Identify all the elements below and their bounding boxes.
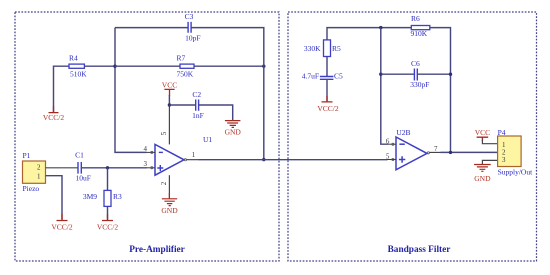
wire C5 to VCC/2 bbox=[326, 79, 328, 101]
power VCC/2 under C5 bbox=[317, 96, 339, 113]
svg-text:330K: 330K bbox=[304, 44, 321, 53]
power VCC/2 under R3 bbox=[97, 214, 119, 232]
wire to C6 bbox=[381, 73, 415, 75]
node junction C6 left bbox=[379, 73, 382, 76]
wire U2B output net to P4 bbox=[441, 151, 498, 153]
svg-text:5: 5 bbox=[386, 153, 390, 161]
wire VCC/2 to R4 bbox=[54, 66, 70, 112]
svg-text:C1: C1 bbox=[75, 151, 84, 160]
svg-text:C3: C3 bbox=[185, 12, 194, 21]
resistor R4 bbox=[69, 54, 87, 79]
op-amp U1 bbox=[155, 135, 212, 175]
svg-text:C6: C6 bbox=[411, 59, 420, 68]
svg-text:910K: 910K bbox=[411, 29, 428, 38]
node junction C6 right bbox=[449, 73, 452, 76]
svg-text:Supply/Out: Supply/Out bbox=[498, 167, 534, 176]
resistor R6 bbox=[411, 14, 430, 38]
wire R6 to right corner down bbox=[430, 28, 451, 153]
power VCC at P4 bbox=[475, 128, 490, 141]
svg-text:2: 2 bbox=[160, 181, 168, 185]
wire U2B output pin stub bbox=[430, 151, 441, 153]
power VCC/2 under R4 bbox=[43, 106, 65, 122]
wire R5 top corner along top bbox=[327, 28, 411, 40]
svg-text:R7: R7 bbox=[177, 54, 186, 63]
svg-text:330pF: 330pF bbox=[410, 80, 429, 89]
capacitor C1 bbox=[75, 151, 91, 183]
svg-text:2: 2 bbox=[37, 163, 41, 171]
resistor R5 bbox=[304, 40, 341, 57]
svg-text:R6: R6 bbox=[411, 14, 420, 23]
node junction R3 tap bbox=[106, 166, 109, 169]
power VCC above U1 bbox=[162, 81, 177, 96]
svg-text:VCC: VCC bbox=[475, 128, 490, 137]
wire R3 to VCC/2 bbox=[107, 206, 109, 219]
label Pre-Amplifier bbox=[129, 245, 185, 255]
power VCC/2 under P1 bbox=[51, 214, 73, 232]
capacitor C2 bbox=[192, 90, 204, 120]
svg-text:5: 5 bbox=[160, 131, 168, 135]
wire C2 to GND bbox=[199, 105, 233, 120]
svg-text:VCC/2: VCC/2 bbox=[43, 113, 65, 122]
svg-text:Piezo: Piezo bbox=[23, 184, 40, 193]
pin 2 power stub (bottom) bbox=[160, 175, 170, 198]
wire R5 to C5 bbox=[326, 57, 328, 77]
wire U1 output net to U2B pin5 bbox=[199, 159, 388, 161]
pre-amplifier block dashed border bbox=[15, 12, 279, 261]
connector P4 bbox=[498, 128, 534, 177]
svg-text:P1: P1 bbox=[23, 151, 31, 160]
svg-text:3: 3 bbox=[502, 156, 506, 164]
svg-text:4: 4 bbox=[144, 145, 148, 153]
svg-text:Pre-Amplifier: Pre-Amplifier bbox=[129, 245, 185, 255]
svg-text:P4: P4 bbox=[498, 128, 506, 137]
resistor R7 bbox=[177, 54, 195, 79]
svg-text:C5: C5 bbox=[334, 72, 343, 81]
svg-text:10pF: 10pF bbox=[185, 33, 200, 42]
svg-text:VCC/2: VCC/2 bbox=[317, 104, 339, 113]
svg-text:3M9: 3M9 bbox=[83, 192, 97, 201]
capacitor C5 bbox=[302, 72, 343, 81]
pin 6 stub bbox=[386, 137, 396, 145]
node junction output bbox=[449, 151, 452, 154]
svg-text:510K: 510K bbox=[70, 70, 87, 79]
op-amp U2B bbox=[396, 128, 427, 170]
wire VCC to P4 pin1 bbox=[482, 140, 497, 144]
wire P1 pin2 to C1 bbox=[46, 167, 79, 169]
svg-text:7: 7 bbox=[434, 145, 438, 153]
svg-text:VCC/2: VCC/2 bbox=[51, 223, 73, 232]
svg-text:R4: R4 bbox=[69, 54, 78, 63]
svg-text:GND: GND bbox=[161, 206, 178, 215]
node junction feedback left bbox=[113, 65, 116, 68]
wire P4 pin3 to GND bbox=[482, 160, 497, 164]
ground GND below U1 bbox=[161, 193, 178, 215]
wire P1 pin1 down to VCC/2 bbox=[46, 176, 63, 220]
wire feedback vertical to pin4 bbox=[115, 28, 147, 153]
wire C3 to right vertical down to output bbox=[191, 28, 264, 160]
svg-text:GND: GND bbox=[225, 127, 242, 136]
bandpass filter block dashed border bbox=[288, 12, 537, 261]
svg-text:VCC: VCC bbox=[162, 81, 177, 90]
wire R4 to node bbox=[84, 65, 115, 67]
ground GND right of C2 bbox=[225, 121, 242, 137]
pin 1 output stub bbox=[184, 151, 195, 161]
svg-text:10uF: 10uF bbox=[75, 174, 90, 183]
svg-text:4.7uF: 4.7uF bbox=[302, 72, 319, 81]
resistor R3 bbox=[83, 190, 122, 206]
connector P1 bbox=[23, 151, 46, 193]
pin 3 stub bbox=[144, 160, 155, 169]
pin 7 output stub bbox=[427, 145, 438, 154]
wire junction to C2 bbox=[169, 104, 195, 106]
node junction output feedback bbox=[262, 158, 265, 161]
node junction top feedback bbox=[379, 26, 382, 29]
svg-text:C2: C2 bbox=[192, 90, 201, 99]
svg-text:R5: R5 bbox=[332, 44, 341, 53]
pin 5 power stub (top) bbox=[160, 105, 169, 144]
wire U1 output pin stub bbox=[187, 159, 199, 161]
svg-text:6: 6 bbox=[386, 137, 390, 145]
svg-text:U2B: U2B bbox=[396, 128, 410, 137]
ground GND at P4 bbox=[474, 165, 491, 183]
pin 5 stub bbox=[386, 153, 396, 161]
svg-text:1nF: 1nF bbox=[192, 111, 204, 120]
wire feedback vertical left bbox=[381, 28, 388, 145]
svg-text:1: 1 bbox=[37, 172, 41, 180]
capacitor C6 bbox=[410, 59, 429, 89]
node junction C2 tap bbox=[168, 103, 171, 106]
svg-text:750K: 750K bbox=[177, 70, 194, 79]
svg-text:R3: R3 bbox=[113, 192, 122, 201]
wire C6 to right vertical bbox=[417, 73, 450, 75]
wire R7 to right vertical bbox=[194, 65, 264, 67]
node junction feedback right bbox=[262, 65, 265, 68]
wire VCC to U1 pin5 / C2 tap bbox=[168, 95, 170, 105]
svg-text:3: 3 bbox=[144, 160, 148, 168]
pin 4 stub bbox=[144, 145, 155, 154]
wire node to R7 bbox=[115, 65, 180, 67]
wire junction to R3 bbox=[107, 168, 109, 191]
svg-text:VCC/2: VCC/2 bbox=[97, 223, 119, 232]
wire C1 to op-amp pin3 bbox=[81, 167, 146, 169]
svg-text:GND: GND bbox=[474, 174, 491, 183]
capacitor C3 bbox=[185, 12, 201, 42]
svg-text:Bandpass Filter: Bandpass Filter bbox=[388, 245, 451, 255]
wire top left to C3 bbox=[115, 27, 188, 29]
svg-text:U1: U1 bbox=[203, 135, 212, 144]
svg-text:1: 1 bbox=[192, 151, 196, 159]
label Bandpass Filter bbox=[388, 245, 451, 255]
